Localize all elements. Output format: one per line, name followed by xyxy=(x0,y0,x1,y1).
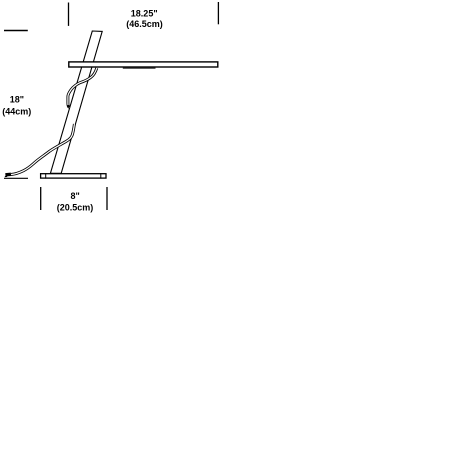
svg-text:(20.5cm): (20.5cm) xyxy=(57,202,94,212)
svg-text:8": 8" xyxy=(71,191,80,201)
svg-text:18.25": 18.25" xyxy=(131,9,158,19)
svg-text:18": 18" xyxy=(10,95,24,105)
svg-text:(44cm): (44cm) xyxy=(2,106,31,116)
svg-text:(46.5cm): (46.5cm) xyxy=(126,19,163,29)
